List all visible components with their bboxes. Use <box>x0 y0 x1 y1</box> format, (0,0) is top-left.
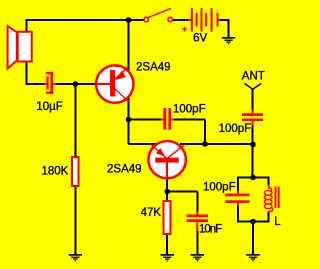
svg-text:2SA49: 2SA49 <box>107 164 142 176</box>
svg-text:6V: 6V <box>193 33 207 45</box>
svg-text:180K: 180K <box>42 166 69 178</box>
svg-text:L: L <box>274 216 281 228</box>
svg-text:10µF: 10µF <box>36 101 62 113</box>
svg-text:100pF: 100pF <box>219 123 252 135</box>
svg-text:10nF: 10nF <box>199 223 222 235</box>
svg-text:100pF: 100pF <box>203 182 236 194</box>
svg-text:ANT: ANT <box>242 70 265 82</box>
svg-text:100pF: 100pF <box>173 103 206 115</box>
svg-text:2SA49: 2SA49 <box>136 62 171 74</box>
svg-text:47K: 47K <box>141 207 162 219</box>
